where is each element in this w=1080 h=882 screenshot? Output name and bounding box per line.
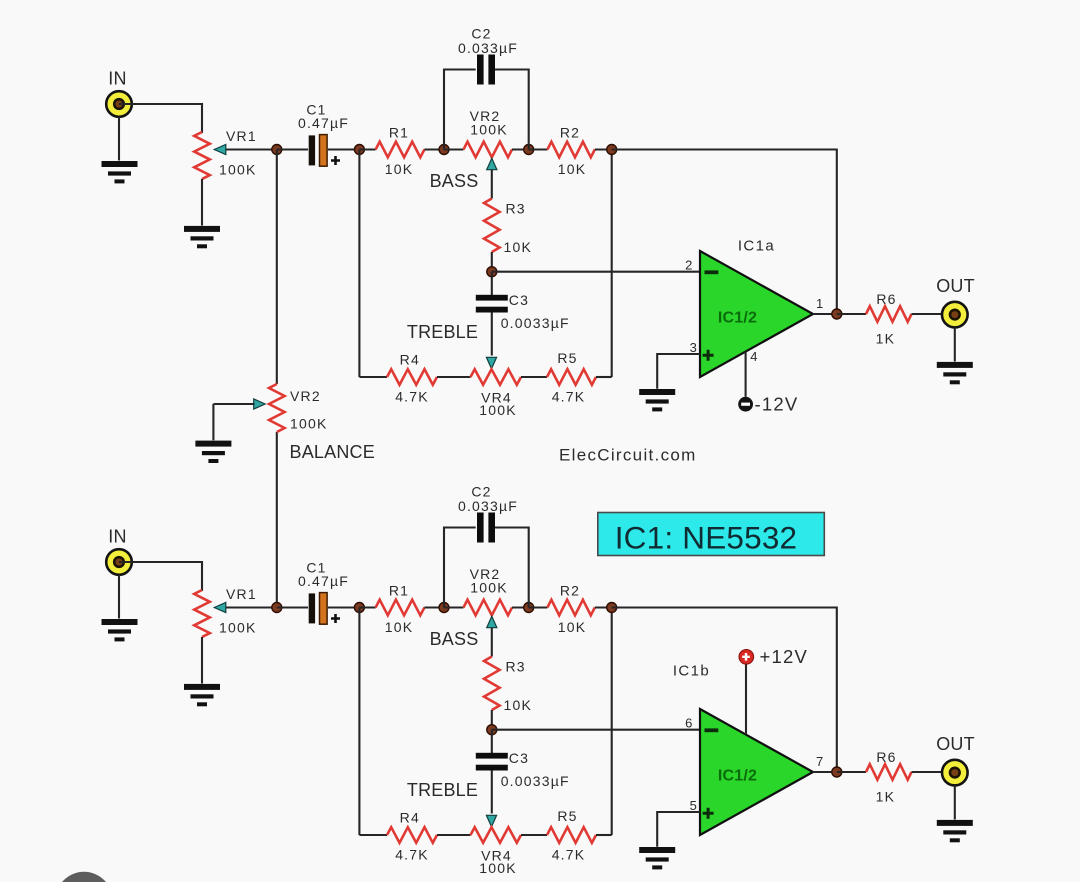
svg-text:7: 7 <box>816 754 824 769</box>
wire node E to C3 <box>491 272 493 295</box>
wire R6 to OUT jack <box>912 313 955 315</box>
op-amp U1b (half NE5532) <box>700 709 813 835</box>
svg-text:2: 2 <box>685 258 693 273</box>
node A (VR1 wiper / balance tap) <box>272 145 282 155</box>
potentiometer VR4 100K TREBLE element <box>471 369 522 385</box>
svg-text:IC1/2: IC1/2 <box>718 310 757 327</box>
resistor R3 10K (vertical) <box>484 657 500 711</box>
wire R4 to VR4 <box>437 376 471 378</box>
wire VR1 bottom to ground <box>201 637 203 684</box>
wire C1 to node B <box>328 606 359 608</box>
plus mark (non-inverting input) <box>703 350 714 361</box>
wire C2 loop right riser <box>495 528 529 608</box>
wire IN jack to ground <box>118 117 120 161</box>
jack IN (bottom channel) <box>106 549 132 575</box>
node A (VR1 wiper / balance tap) <box>272 603 282 613</box>
ground under OUT jack <box>937 362 973 384</box>
ground at balance wiper <box>195 441 231 463</box>
svg-text:1K: 1K <box>876 331 896 347</box>
svg-text:TREBLE: TREBLE <box>407 780 478 800</box>
decorative corner circle <box>55 872 112 882</box>
potentiometer VR2 100K BASS element <box>464 142 513 158</box>
wiper arrow of VR1 <box>214 602 226 612</box>
V+ supply terminal +12V <box>739 650 754 665</box>
wire R3 to node E <box>491 710 493 730</box>
node E (R3 / C3 / op-amp inverting input) <box>487 725 497 735</box>
wire node D to R2 <box>529 148 548 150</box>
wire VR4 to R5 <box>521 834 547 836</box>
jack IN (top channel) <box>106 91 132 117</box>
svg-text:R6: R6 <box>876 749 896 765</box>
node F (R2 / feedback junction) <box>607 145 617 155</box>
treble wiper arrow (points down) <box>486 815 496 827</box>
resistor R5 4.7K <box>547 827 596 843</box>
wire C3 to treble wiper arrow <box>491 313 493 356</box>
svg-text:IC1/2: IC1/2 <box>718 768 757 785</box>
wire treble row left segment <box>359 376 387 378</box>
resistor R5 4.7K <box>547 369 596 385</box>
svg-text:1: 1 <box>816 296 824 311</box>
wire op-amp output to output node <box>813 313 837 315</box>
svg-text:R1: R1 <box>389 583 409 599</box>
svg-text:+12V: +12V <box>760 646 809 667</box>
capacitor C3 0.0033uF <box>476 753 508 771</box>
svg-text:0.033µF: 0.033µF <box>458 498 518 514</box>
svg-text:R4: R4 <box>400 352 420 368</box>
wire op-amp output to output node <box>813 771 837 773</box>
wire node B down to treble row <box>358 150 360 378</box>
svg-text:100K: 100K <box>219 162 257 178</box>
wire balance bus (node A top to node A bottom) <box>276 150 278 385</box>
wiper arrow of VR1 <box>214 144 226 154</box>
wire IN jack to VR1 top <box>119 562 202 591</box>
svg-text:R3: R3 <box>506 201 526 217</box>
resistor R2 10K <box>547 600 594 616</box>
svg-text:100K: 100K <box>479 402 517 418</box>
wire non-inverting input to ground <box>657 354 700 389</box>
svg-text:-12V: -12V <box>755 394 799 415</box>
wire VR1 wiper to node A <box>215 148 278 150</box>
wire VR2 to node D <box>512 606 529 608</box>
svg-text:10K: 10K <box>558 619 587 635</box>
wire non-inverting input to ground <box>657 812 700 847</box>
ground at non-inverting input <box>639 389 675 411</box>
svg-text:0.0033µF: 0.0033µF <box>501 773 570 789</box>
capacitor C1 0.47uF (polarized) <box>309 135 327 167</box>
svg-text:BASS: BASS <box>430 629 479 649</box>
wire node E to inverting input <box>492 271 700 273</box>
bass wiper arrow (points up) <box>487 616 497 628</box>
wire bass wiper to R3 <box>491 170 493 199</box>
wire IN jack to VR1 top <box>119 104 202 133</box>
svg-text:TREBLE: TREBLE <box>407 322 478 342</box>
wire node C to VR2 element <box>444 606 464 608</box>
output node <box>832 309 842 319</box>
potentiometer VR4 100K TREBLE element <box>471 827 522 843</box>
svg-text:R4: R4 <box>400 810 420 826</box>
svg-text:3: 3 <box>690 340 698 355</box>
wire balance wiper to ground <box>213 404 254 440</box>
balance wiper arrow (points right) <box>254 399 266 409</box>
capacitor C2 0.033uF <box>477 55 495 85</box>
wire node D2 down to treble row (right side) <box>611 608 613 836</box>
wire VR1 bottom to ground <box>201 179 203 226</box>
svg-text:0.0033µF: 0.0033µF <box>501 315 570 331</box>
wire node E to C3 <box>491 730 493 753</box>
treble wiper arrow (points down) <box>486 357 496 369</box>
svg-text:IC1b: IC1b <box>673 663 710 680</box>
resistor R2 10K <box>547 142 594 158</box>
bass wiper arrow (points up) <box>487 158 497 170</box>
wire node B to R1 <box>359 148 375 150</box>
node F (R2 / feedback junction) <box>607 603 617 613</box>
svg-text:R5: R5 <box>557 808 577 824</box>
svg-text:C3: C3 <box>509 750 529 766</box>
IC type callout box IC1: NE5532 <box>598 513 825 556</box>
svg-text:10K: 10K <box>385 619 414 635</box>
wire R3 to node E <box>491 252 493 272</box>
jack OUT <box>942 302 968 328</box>
svg-text:IN: IN <box>108 69 126 89</box>
svg-text:R2: R2 <box>560 583 580 599</box>
minus mark (inverting input) <box>705 270 719 274</box>
wire R6 to OUT jack <box>912 771 955 773</box>
svg-text:4.7K: 4.7K <box>552 847 586 863</box>
svg-text:BASS: BASS <box>430 171 479 191</box>
svg-text:6: 6 <box>685 716 693 731</box>
ground under VR1 <box>184 684 220 706</box>
svg-text:R3: R3 <box>506 659 526 675</box>
wire R2 to node F <box>595 148 612 150</box>
wire output node to R6 <box>837 771 866 773</box>
svg-text:VR2: VR2 <box>290 388 321 404</box>
svg-text:R2: R2 <box>560 125 580 141</box>
minus mark (inverting input) <box>705 728 719 732</box>
svg-text:IN: IN <box>108 527 126 547</box>
wire pin 8 to V+ supply <box>745 664 747 735</box>
wire R5 to right riser <box>596 376 612 378</box>
V- supply terminal -12V <box>738 397 753 412</box>
potentiometer VR1 100K (input level) <box>194 590 210 637</box>
svg-text:VR1: VR1 <box>226 128 257 144</box>
wire C3 to treble wiper arrow <box>491 771 493 814</box>
wire C2 loop left riser <box>444 528 476 608</box>
plus mark of C1 <box>331 156 340 165</box>
wire node A to C1 <box>277 148 308 150</box>
wire VR1 wiper to node A <box>215 606 278 608</box>
svg-text:OUT: OUT <box>936 734 975 754</box>
svg-text:0.033µF: 0.033µF <box>458 40 518 56</box>
wire C1 to node B <box>328 148 359 150</box>
potentiometer VR2 100K BASS element <box>464 600 513 616</box>
node B (C1 output) <box>354 603 364 613</box>
node C (R1 / VR2 / C2 junction) <box>439 603 449 613</box>
svg-text:100K: 100K <box>219 620 257 636</box>
wire OUT jack to ground <box>954 786 956 820</box>
resistor R6 1K <box>866 306 912 322</box>
svg-text:1K: 1K <box>876 789 896 805</box>
jack OUT <box>942 760 968 786</box>
svg-text:R6: R6 <box>876 291 896 307</box>
potentiometer VR1 100K (input level) <box>194 132 210 179</box>
wire C2 loop left riser <box>444 70 476 150</box>
resistor R1 10K <box>376 600 425 616</box>
svg-text:IC1: NE5532: IC1: NE5532 <box>615 520 798 556</box>
capacitor C1 0.47uF (polarized) <box>309 593 327 625</box>
svg-text:IC1a: IC1a <box>738 238 775 255</box>
svg-text:4.7K: 4.7K <box>395 847 429 863</box>
plus mark (non-inverting input) <box>703 808 714 819</box>
wire C2 loop right riser <box>495 70 529 150</box>
node D (VR2 / R2 / C2 junction) <box>524 145 534 155</box>
wire node D2 down to treble row (right side) <box>611 150 613 378</box>
plus mark of C1 <box>331 614 340 623</box>
svg-text:100K: 100K <box>290 416 328 432</box>
wire VR2 to node D <box>512 148 529 150</box>
svg-text:5: 5 <box>690 798 698 813</box>
node C (R1 / VR2 / C2 junction) <box>439 145 449 155</box>
wire output node to R6 <box>837 313 866 315</box>
resistor R1 10K <box>376 142 425 158</box>
resistor R4 4.7K <box>387 827 437 843</box>
svg-text:0.47µF: 0.47µF <box>298 573 349 589</box>
svg-text:10K: 10K <box>504 697 533 713</box>
wire node A to C1 <box>277 606 308 608</box>
svg-text:100K: 100K <box>479 860 517 876</box>
svg-text:4.7K: 4.7K <box>552 389 586 405</box>
svg-text:VR1: VR1 <box>226 586 257 602</box>
wire R4 to VR4 <box>437 834 471 836</box>
wire R2 to node F <box>595 606 612 608</box>
wire bass wiper to R3 <box>491 628 493 657</box>
wire VR4 to R5 <box>521 376 547 378</box>
node D (VR2 / R2 / C2 junction) <box>524 603 534 613</box>
svg-text:10K: 10K <box>558 161 587 177</box>
svg-text:R5: R5 <box>557 350 577 366</box>
svg-text:4.7K: 4.7K <box>395 389 429 405</box>
potentiometer VR2 100K BALANCE <box>269 384 285 432</box>
ground under VR1 <box>184 226 220 248</box>
svg-text:4: 4 <box>750 349 758 364</box>
svg-text:C3: C3 <box>509 292 529 308</box>
output node <box>832 767 842 777</box>
wire IN jack to ground <box>118 575 120 619</box>
ground under OUT jack <box>937 820 973 842</box>
wire node C to VR2 element <box>444 148 464 150</box>
wire treble row left segment <box>359 834 387 836</box>
svg-text:10K: 10K <box>504 239 533 255</box>
wire R5 to right riser <box>596 834 612 836</box>
wire node E to inverting input <box>492 729 700 731</box>
capacitor C2 0.033uF <box>477 513 495 543</box>
capacitor C3 0.0033uF <box>476 295 508 313</box>
wire OUT jack to ground <box>954 328 956 362</box>
resistor R4 4.7K <box>387 369 437 385</box>
wire R1 to node C <box>424 606 444 608</box>
resistor R6 1K <box>866 764 912 780</box>
svg-text:ElecCircuit.com: ElecCircuit.com <box>559 446 697 465</box>
resistor R3 10K (vertical) <box>484 199 500 253</box>
svg-text:100K: 100K <box>470 580 508 596</box>
ground under IN jack <box>102 161 138 183</box>
svg-text:0.47µF: 0.47µF <box>298 115 349 131</box>
ground under IN jack <box>102 619 138 641</box>
wire pin 4 to V- supply <box>745 352 747 397</box>
wire feedback from node F to output node <box>612 150 837 315</box>
wire node D to R2 <box>529 606 548 608</box>
node E (R3 / C3 / op-amp inverting input) <box>487 267 497 277</box>
svg-text:R1: R1 <box>389 125 409 141</box>
op-amp U1a (half NE5532) <box>700 251 813 377</box>
wire feedback from node F to output node <box>612 608 837 773</box>
svg-text:BALANCE: BALANCE <box>290 442 375 462</box>
wire node B down to treble row <box>358 608 360 836</box>
wire R1 to node C <box>424 148 444 150</box>
svg-text:OUT: OUT <box>936 276 975 296</box>
wire node B to R1 <box>359 606 375 608</box>
svg-text:100K: 100K <box>470 122 508 138</box>
node B (C1 output) <box>354 145 364 155</box>
svg-text:10K: 10K <box>385 161 414 177</box>
ground at non-inverting input <box>639 847 675 869</box>
